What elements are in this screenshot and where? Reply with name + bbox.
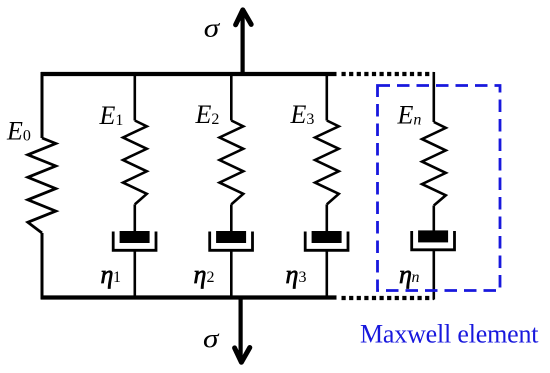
svg-text:E3: E3	[290, 100, 315, 129]
wire: E2 to dashpot piston rod	[230, 204, 233, 232]
dashpot eta3: cup	[305, 232, 348, 251]
svg-text:E0: E0	[6, 117, 31, 146]
svg-text:E2: E2	[195, 100, 220, 129]
wire: bottom bus (solid)	[41, 295, 337, 299]
wire: bottom bus dotted continuation	[342, 296, 435, 300]
Maxwell element boundary box (blue dashed)	[378, 86, 501, 291]
spring E0	[28, 138, 56, 233]
svg-text:σ: σ	[204, 13, 221, 42]
svg-text:n: n	[412, 269, 420, 286]
wire: etan bottom lead	[432, 250, 435, 300]
wire: E0 top lead	[41, 72, 44, 138]
svg-text:η: η	[194, 260, 207, 289]
svg-text:η: η	[101, 260, 114, 289]
stress arrow up (sigma)	[236, 10, 252, 74]
dashpot eta2: piston	[216, 231, 246, 243]
spring E2	[220, 121, 244, 205]
svg-text:Maxwell element: Maxwell element	[360, 320, 539, 349]
wire: En top lead	[432, 72, 435, 122]
wire: top bus dotted continuation	[342, 72, 434, 76]
wire: eta3 bottom lead	[325, 250, 328, 299]
wire: En to dashpot piston rod	[432, 206, 435, 232]
branch 3: Maxwell element E3/eta3	[305, 72, 348, 300]
branch E0: left spring	[28, 72, 56, 300]
wire: eta1 bottom lead	[134, 250, 137, 299]
svg-text:σ: σ	[203, 324, 220, 353]
wire: E3 to dashpot piston rod	[325, 204, 328, 232]
dashpot etan: cup	[412, 231, 455, 250]
wire: eta2 bottom lead	[230, 250, 233, 299]
svg-text:3: 3	[299, 269, 307, 286]
dashpot eta3: piston	[312, 231, 342, 243]
wire: E2 top lead	[230, 72, 233, 121]
wire: E1 top lead	[134, 72, 137, 121]
spring E3	[315, 121, 339, 205]
wire: E1 to dashpot piston rod	[134, 204, 137, 232]
spring E1	[123, 121, 147, 205]
branch n: Maxwell element En/etan	[412, 72, 455, 300]
dashpot eta1: cup	[113, 232, 156, 251]
svg-text:En: En	[397, 100, 422, 129]
svg-text:η: η	[286, 260, 299, 289]
dashpot etan: piston	[418, 230, 448, 242]
dashpot eta1: piston	[120, 231, 150, 243]
svg-text:2: 2	[207, 269, 215, 286]
stress arrow down (sigma)	[235, 298, 250, 363]
spring En	[422, 122, 446, 206]
branch 2: Maxwell element E2/eta2	[210, 72, 253, 300]
svg-text:η: η	[399, 260, 412, 289]
wire: top bus (solid)	[41, 72, 337, 76]
svg-text:E1: E1	[99, 101, 124, 130]
branch 1: Maxwell element E1/eta1	[113, 72, 156, 300]
wire: E0 bottom lead	[41, 233, 44, 300]
svg-text:1: 1	[113, 269, 121, 286]
dashpot eta2: cup	[210, 232, 253, 251]
wire: E3 top lead	[325, 72, 328, 121]
